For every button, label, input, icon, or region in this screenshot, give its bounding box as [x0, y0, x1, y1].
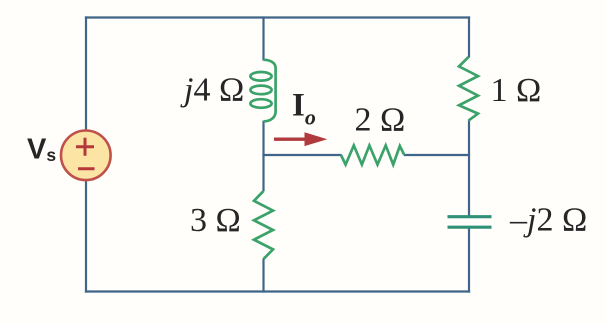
wire middle branch bottom segment [262, 259, 264, 293]
svg-text:Vs: Vs [27, 134, 56, 166]
voltage source Vs [61, 131, 111, 181]
wire middle horizontal left stub [262, 154, 341, 156]
inductor L (j4 ohm) [250, 60, 275, 122]
resistor R (3 ohm) [254, 191, 273, 259]
svg-text:1 Ω: 1 Ω [491, 72, 542, 109]
svg-text:2 Ω: 2 Ω [355, 102, 406, 139]
resistor R (2 ohm) [341, 145, 404, 164]
current arrow Io [274, 132, 327, 146]
resistor R (1 ohm) [459, 57, 478, 121]
wire middle horizontal right stub [404, 154, 470, 156]
wire right upper segment [468, 16, 470, 57]
wire middle branch top segment [262, 16, 264, 60]
wire left lower segment [85, 180, 87, 292]
wire right middle segment [468, 120, 470, 216]
wire left upper segment [85, 16, 87, 130]
svg-text:–j2 Ω: –j2 Ω [509, 201, 587, 238]
wire middle branch center segment [262, 121, 264, 192]
capacitor C (-j2 ohm) [448, 217, 492, 228]
svg-text:j4 Ω: j4 Ω [180, 72, 244, 109]
wire right lower segment [468, 227, 470, 293]
svg-text:3 Ω: 3 Ω [190, 202, 241, 239]
wire top edge [85, 16, 470, 18]
svg-text:Io: Io [292, 88, 316, 130]
wire bottom edge [85, 290, 470, 292]
